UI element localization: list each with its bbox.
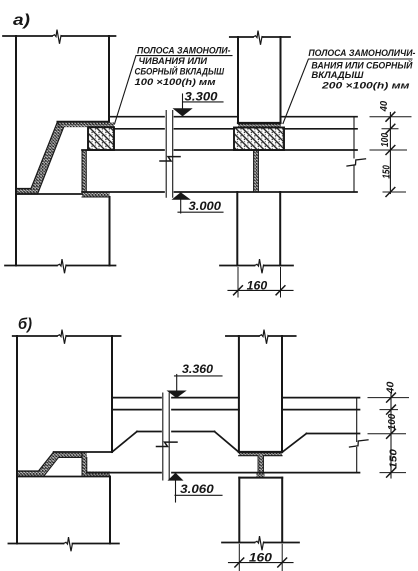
label 2 leader line xyxy=(283,59,412,124)
column C2 right edge xyxy=(279,192,281,266)
elevation 3.000 underline xyxy=(178,211,223,213)
column C3 bottom edge xyxy=(239,451,282,453)
column C2 bottom cut line xyxy=(220,265,293,267)
dim tick B' xyxy=(387,405,396,414)
column C1 right edge xyxy=(280,37,282,123)
elevation mark 3.060 triangle xyxy=(168,473,184,481)
wall W4 right edge xyxy=(109,477,111,544)
wall W2 lower-left: top edge xyxy=(16,193,82,195)
slab bottom line D xyxy=(82,191,357,193)
dim 160 line (section b) xyxy=(229,562,294,564)
svg-text:150: 150 xyxy=(389,449,400,469)
wall W1 upper-left: top cut line xyxy=(3,35,116,37)
elevation mark 3.360 triangle xyxy=(167,391,187,399)
column C3 right edge xyxy=(281,336,283,452)
slab joint seam stipple mid-column xyxy=(258,456,264,473)
svg-text:150: 150 xyxy=(382,165,393,179)
extension line level D' xyxy=(380,472,406,474)
svg-text:3.060: 3.060 xyxy=(180,482,214,496)
slab haunch diagonal right of column xyxy=(282,434,307,453)
grout block B1 100x100 hatched xyxy=(88,127,114,150)
wall W4 break squiggle xyxy=(64,537,73,551)
svg-text:160: 160 xyxy=(247,278,268,292)
level mark leader pair (section b) xyxy=(163,393,169,480)
slab haunch diagonal to column xyxy=(215,432,239,453)
wall W3 foot bottom line xyxy=(17,452,54,471)
extension line level A' xyxy=(368,397,409,399)
dim 160 tick left xyxy=(234,286,243,295)
floor finish top line A' xyxy=(112,397,360,399)
elevation mark 3.000 tick xyxy=(180,200,182,213)
svg-text:СБОРНЫЙ ВКЛАДЫШ: СБОРНЫЙ ВКЛАДЫШ xyxy=(135,65,225,77)
label 1 text xyxy=(135,46,231,89)
dim tick C' xyxy=(387,429,396,438)
elevation 3.060 underline xyxy=(175,494,222,496)
wall W2 bottom cut line xyxy=(5,265,116,267)
wall W3 right edge xyxy=(111,336,113,452)
svg-text:160: 160 xyxy=(249,551,272,565)
wall W1 left edge xyxy=(15,36,17,266)
slab break line right end (section a) xyxy=(353,117,355,192)
level mark leader pair (section a) xyxy=(166,111,173,198)
slab break zigzag xyxy=(347,159,366,166)
extension line level B xyxy=(382,128,398,130)
dim 160 extension lines (section a) xyxy=(238,268,281,298)
slab flange bottom line D' xyxy=(87,472,360,474)
column C1 break squiggle xyxy=(253,31,263,45)
vertical joint seam lines at wall notch xyxy=(82,452,87,477)
slab flange top lines under column xyxy=(239,455,282,457)
dim 160 tick right xyxy=(276,286,285,295)
label 1 leader line xyxy=(115,56,233,124)
extension line level C' xyxy=(368,433,406,435)
floor finish top line A xyxy=(109,116,357,118)
svg-text:100 ×100(h) мм: 100 ×100(h) мм xyxy=(135,77,216,88)
slab soffit line left bay xyxy=(137,431,215,433)
floor layer line B' xyxy=(112,409,360,411)
extension line level B' xyxy=(380,409,398,411)
floor layer line B xyxy=(114,128,357,130)
mortar seam under column C1 (stipple) xyxy=(238,124,281,128)
elevation mark 3.300 triangle xyxy=(173,108,193,116)
mortar seam under wall W1 bottom (stipple) xyxy=(58,122,115,127)
mortar seam sloped (stipple) xyxy=(16,122,64,194)
column C3 left edge xyxy=(238,336,240,452)
wall W1 bottom edge xyxy=(58,121,110,123)
elevation mark 3.360 tick xyxy=(176,375,178,391)
slab joint seam lines mid-column xyxy=(258,456,264,473)
dim 160 tick right (section b) xyxy=(278,558,287,567)
wall W1 right edge xyxy=(108,36,110,122)
wall W1 sloped foot outer line xyxy=(16,122,58,189)
vertical dimension line (section a) xyxy=(389,113,391,194)
svg-text:б): б) xyxy=(18,316,32,333)
leader pair break mark (section b) xyxy=(157,442,178,446)
dim 160 extension lines (section b) xyxy=(239,545,282,571)
extension line level D xyxy=(383,191,406,193)
bearing seam under slab S1 (stipple) xyxy=(82,193,110,197)
elevation mark 3.300 tick xyxy=(182,94,184,108)
extension line level A xyxy=(370,116,411,118)
dim tick A xyxy=(386,112,395,121)
label 2 text xyxy=(308,48,415,92)
svg-text:ПОЛОСА ЗАМОНОЛИЧИ-: ПОЛОСА ЗАМОНОЛИЧИ- xyxy=(308,48,415,59)
wall W2 right edge xyxy=(109,197,111,266)
column C1 left edge xyxy=(237,37,239,123)
svg-text:ПОЛОСА ЗАМОНОЛИ-: ПОЛОСА ЗАМОНОЛИ- xyxy=(137,46,231,57)
slab joint seam stipple below block B2 xyxy=(254,150,259,192)
wall W4 bottom cut line xyxy=(8,543,119,545)
bearing seam under slab flange (stipple) xyxy=(87,472,110,477)
svg-text:3.360: 3.360 xyxy=(182,362,213,376)
bearing seam bottom line xyxy=(82,196,110,198)
leader pair break mark xyxy=(160,157,180,161)
vertical joint seam stipple xyxy=(82,452,87,476)
slab soffit line right bay xyxy=(307,433,360,435)
joint seam stipple over lower column xyxy=(257,473,265,477)
dim tick B xyxy=(386,124,395,133)
dim tick D' xyxy=(387,468,396,477)
svg-text:40: 40 xyxy=(386,381,397,395)
column C2 lower-middle: left edge xyxy=(236,192,238,266)
vertical dimension line (section b) xyxy=(390,394,392,479)
column C4 bottom cut line xyxy=(222,542,299,544)
wall W2 break squiggle xyxy=(57,259,67,273)
extension line level C xyxy=(370,149,407,151)
column C1 upper-middle: top cut line xyxy=(230,36,290,38)
column C4 lower-middle: top edge xyxy=(239,477,282,479)
wall W4 lower-left: top edge xyxy=(17,476,110,478)
elevation mark 3.060 tick xyxy=(175,481,177,502)
wall W3 upper-left: top cut line xyxy=(13,335,121,337)
slab break line right end (section b) xyxy=(356,398,358,473)
slab joint seam lines below block B2 xyxy=(254,150,259,192)
svg-text:40: 40 xyxy=(379,100,390,112)
svg-text:а): а) xyxy=(13,12,30,29)
column C1 bottom edge xyxy=(238,122,281,124)
column C3 upper-middle: top cut line xyxy=(226,335,296,337)
svg-text:3.300: 3.300 xyxy=(185,89,218,103)
svg-text:100: 100 xyxy=(380,133,391,147)
wall W3 foot seam inner line xyxy=(44,458,83,477)
wall W3 break squiggle xyxy=(57,330,67,344)
dim tick A' xyxy=(387,393,396,402)
svg-text:200 ×100(h) мм: 200 ×100(h) мм xyxy=(321,81,410,92)
svg-text:100: 100 xyxy=(387,413,398,430)
elevation mark 3.000 triangle xyxy=(172,192,191,200)
column C4 right edge xyxy=(281,478,283,543)
svg-text:ВКЛАДЫШ: ВКЛАДЫШ xyxy=(311,70,364,81)
slab haunch diagonal left xyxy=(112,432,137,453)
svg-text:3.000: 3.000 xyxy=(189,199,222,213)
slab top line C xyxy=(82,149,357,151)
wall W1 break squiggle xyxy=(52,30,62,44)
column C4 break squiggle xyxy=(255,536,265,550)
dim 160 tick left (section b) xyxy=(235,558,244,567)
dim tick C xyxy=(386,146,395,155)
grout block B2 200x100 hatched xyxy=(234,128,284,151)
wall W3 foot seam stipple xyxy=(17,452,82,477)
floor slab S1 left edge seam lines xyxy=(82,150,86,192)
slab break zigzag (section b) xyxy=(350,440,369,447)
dim 160 line (section a) xyxy=(228,289,293,291)
wall W3 left edge xyxy=(16,336,18,544)
column C2 break squiggle xyxy=(255,259,265,273)
elevation 3.300 underline xyxy=(183,101,223,103)
elevation 3.360 underline xyxy=(175,375,223,377)
column C4 left edge xyxy=(238,478,240,543)
wall W3 ledge line xyxy=(54,451,112,453)
column C3 break squiggle xyxy=(259,330,269,344)
dim tick D xyxy=(386,188,395,197)
mortar seam under column C3 (stipple) xyxy=(239,453,282,456)
wall W1 sloped foot inner line xyxy=(16,128,64,195)
floor slab S1 left edge seam stipple xyxy=(82,150,86,192)
